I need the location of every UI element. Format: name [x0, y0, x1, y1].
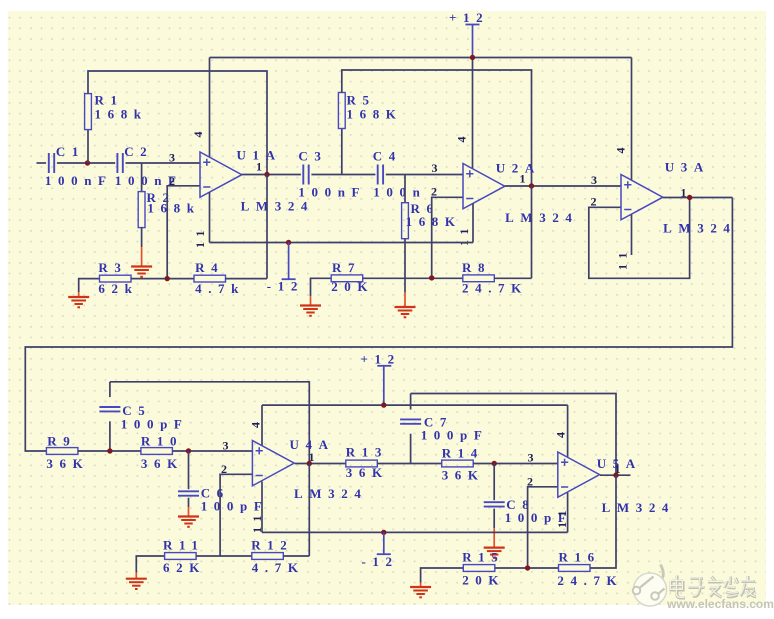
- wire U3A- input: [589, 198, 690, 279]
- wire R15 left to ground: [421, 568, 464, 578]
- junction -12 node top: [286, 240, 291, 245]
- wire U4A out to R13: [295, 463, 346, 465]
- svg-text:168k: 168k: [147, 201, 200, 216]
- junction node U5A-/R16: [525, 565, 530, 570]
- svg-text:100pF: 100pF: [121, 417, 189, 432]
- svg-text:168K: 168K: [406, 214, 462, 229]
- wire C7 bottom stem: [410, 434, 412, 464]
- junction U1A output node: [264, 172, 269, 177]
- power -12 (top): [267, 243, 304, 294]
- junction U3A output node: [687, 195, 692, 200]
- capacitor C7: [400, 415, 488, 443]
- resistor R12: [251, 538, 304, 576]
- svg-text:LM324: LM324: [294, 486, 367, 501]
- svg-text:100nF: 100nF: [298, 185, 366, 200]
- svg-text:R10: R10: [141, 434, 183, 449]
- resistor R3: [98, 260, 138, 296]
- wire R16 to U5A out: [590, 475, 616, 568]
- svg-text:C2: C2: [124, 144, 153, 159]
- resistor R16: [557, 550, 623, 589]
- watermark logo: [633, 565, 667, 607]
- resistor R13: [346, 445, 389, 481]
- wire C7 top stem: [410, 394, 412, 410]
- capacitor C4: [373, 149, 427, 200]
- wire U3A pin11 stub: [631, 215, 633, 256]
- resistor R1: [85, 93, 148, 130]
- wire U4A pin11 drop: [261, 482, 263, 533]
- svg-text:36K: 36K: [141, 456, 184, 471]
- wire C2 to U1A+: [126, 162, 201, 164]
- svg-text:24.7K: 24.7K: [462, 281, 528, 296]
- resistor R8: [462, 260, 528, 296]
- svg-text:LM324: LM324: [505, 210, 578, 225]
- svg-text:24.7K: 24.7K: [557, 573, 623, 588]
- wire U2A pin4 drop: [472, 58, 474, 170]
- resistor R7: [331, 260, 374, 294]
- svg-text:R13: R13: [346, 445, 388, 460]
- svg-text:2: 2: [431, 185, 443, 199]
- svg-text:4: 4: [455, 131, 469, 143]
- wire R11 to R12: [196, 555, 252, 557]
- capacitor C6: [178, 486, 268, 514]
- wire C8 top stem: [493, 464, 495, 501]
- wire R7 to R8: [363, 277, 463, 279]
- wire R3 left to ground: [79, 279, 100, 288]
- op-amp U2A: [463, 164, 505, 209]
- junction node C1/R1: [85, 160, 90, 165]
- svg-text:R5: R5: [347, 93, 376, 108]
- wire R7 left to ground: [311, 278, 332, 287]
- svg-text:36K: 36K: [46, 456, 89, 471]
- wire V+ rail bottom: [262, 404, 568, 406]
- junction U5A output node: [613, 473, 618, 478]
- wire U5A- input: [528, 487, 558, 568]
- resistor R15: [462, 550, 505, 588]
- wire U3A out down-link: [25, 198, 732, 452]
- ground C6 ground: [178, 498, 199, 527]
- wire R9 to R10: [78, 450, 141, 452]
- wire R15 to R16: [495, 567, 559, 569]
- resistor R10: [141, 434, 184, 472]
- svg-text:2: 2: [591, 195, 603, 209]
- svg-text:36K: 36K: [442, 468, 485, 483]
- svg-text:R16: R16: [559, 550, 601, 565]
- junction node R9/C5: [107, 448, 112, 453]
- svg-text:20K: 20K: [462, 573, 505, 588]
- wire C1 to C2: [57, 162, 115, 164]
- power +12 (top): [449, 10, 489, 58]
- junction +12 to rail: [470, 55, 475, 60]
- junction node R14/C8: [492, 461, 497, 466]
- svg-text:R7: R7: [332, 260, 361, 275]
- wire R13 to R14: [377, 463, 441, 465]
- wire V- rail bottom: [262, 531, 568, 533]
- wire C5 top stem: [109, 382, 111, 397]
- wire R4 to fb: [226, 278, 268, 280]
- svg-text:62K: 62K: [163, 560, 206, 575]
- svg-text:R1: R1: [95, 93, 124, 108]
- wire R1 top to fb: [88, 71, 267, 175]
- svg-text:LM324: LM324: [241, 199, 314, 214]
- power -12 (bottom): [362, 532, 399, 569]
- watermark text dianzifashaoyou: [670, 575, 756, 598]
- ground R7 ground: [300, 287, 321, 316]
- svg-text:+12: +12: [361, 352, 401, 367]
- wire C4 to U2A+: [386, 174, 463, 176]
- wire C5 bottom stem: [109, 421, 111, 451]
- svg-text:1: 1: [520, 172, 532, 186]
- wire V+ rail top: [210, 57, 632, 59]
- svg-text:3: 3: [591, 173, 603, 187]
- svg-text:36K: 36K: [346, 465, 389, 480]
- resistor R11: [163, 538, 206, 576]
- svg-text:+12: +12: [449, 10, 489, 25]
- wire U2A fb vertical: [531, 186, 533, 278]
- svg-text:2: 2: [527, 475, 539, 489]
- junction U2A output node: [529, 183, 534, 188]
- svg-text:R4: R4: [195, 260, 224, 275]
- wire R8 to U2A out: [494, 277, 531, 279]
- op-amp U3A: [621, 175, 663, 220]
- wire U2A out to U3A+: [505, 185, 621, 187]
- wire C7 fb horizontal: [411, 394, 616, 476]
- svg-text:C1: C1: [56, 144, 85, 159]
- capacitor C1: [45, 144, 113, 188]
- svg-text:4.7k: 4.7k: [195, 281, 245, 296]
- svg-text:100pF: 100pF: [421, 428, 489, 443]
- wire U2A- input: [432, 197, 463, 278]
- wire R10 to U4A+: [172, 450, 252, 452]
- wire input to C1: [37, 162, 47, 164]
- svg-text:4: 4: [249, 416, 263, 428]
- svg-text:3: 3: [432, 161, 444, 175]
- svg-text:2: 2: [221, 462, 233, 476]
- wire node to R6: [404, 175, 406, 203]
- ground R3 ground: [68, 288, 89, 308]
- wire U1A out to C3: [242, 174, 301, 176]
- wire R12 to fb: [283, 555, 309, 557]
- resistor R9: [46, 434, 89, 472]
- wire U1A pin4 drop: [209, 58, 211, 158]
- wire U4A- input: [220, 474, 252, 556]
- wire U5A pin4 drop: [567, 405, 569, 457]
- svg-text:LM324: LM324: [602, 500, 675, 515]
- op-amp U1A: [200, 152, 242, 197]
- wire U5A pin11 drop: [567, 493, 569, 533]
- svg-text:R15: R15: [462, 550, 504, 565]
- svg-text:62k: 62k: [98, 281, 138, 296]
- svg-text:4: 4: [554, 426, 568, 438]
- wire C5 fb horizontal: [110, 382, 309, 464]
- svg-text:3: 3: [223, 439, 235, 453]
- svg-text:R11: R11: [163, 538, 204, 553]
- wire U1A- input: [167, 186, 200, 279]
- svg-text:4: 4: [614, 142, 628, 154]
- op-amp U5A: [558, 452, 600, 497]
- svg-text:C4: C4: [373, 149, 402, 164]
- ground R2 ground: [131, 228, 152, 277]
- wire U5A out: [600, 474, 631, 476]
- svg-text:4.7K: 4.7K: [252, 560, 305, 575]
- svg-text:U2A: U2A: [496, 161, 541, 176]
- capacitor C2: [115, 144, 183, 188]
- junction -12 node bottom: [381, 530, 386, 535]
- resistor R4: [194, 260, 245, 296]
- wire C6 top stem: [188, 451, 190, 489]
- wire R6 to ground cross: [404, 239, 406, 279]
- wire C3 to C4: [311, 174, 375, 176]
- svg-text:R9: R9: [47, 434, 76, 449]
- ground R15 ground: [410, 578, 431, 597]
- ground R11 ground: [126, 566, 147, 589]
- op-amp U4A: [252, 441, 294, 486]
- svg-text:R8: R8: [462, 260, 491, 275]
- resistor R2: [138, 190, 200, 228]
- svg-text:168k: 168k: [95, 107, 148, 122]
- capacitor C3: [298, 149, 366, 200]
- svg-text:20K: 20K: [331, 279, 374, 294]
- resistor R6: [402, 201, 462, 239]
- svg-text:R3: R3: [98, 260, 127, 275]
- capacitor C5: [99, 403, 188, 432]
- svg-text:R12: R12: [251, 538, 293, 553]
- svg-text:1: 1: [256, 160, 268, 174]
- svg-text:C3: C3: [298, 149, 327, 164]
- wire R3 to R4: [131, 278, 194, 280]
- svg-text:3: 3: [528, 451, 540, 465]
- wire node to R5: [341, 129, 343, 175]
- svg-text:100nF: 100nF: [45, 173, 113, 188]
- wire V- rail top: [210, 242, 474, 244]
- svg-text:-12: -12: [362, 554, 399, 569]
- svg-text:11: 11: [616, 247, 630, 270]
- wire R5 top to U2A out: [342, 70, 532, 186]
- junction +12 to rail bottom: [381, 402, 386, 407]
- wire U3A out: [663, 197, 733, 199]
- wire U4A fb vertical: [308, 464, 310, 557]
- svg-text:11: 11: [193, 225, 207, 248]
- svg-text:LM324: LM324: [663, 221, 736, 236]
- wire U1A fb vertical: [266, 175, 268, 279]
- svg-text:3: 3: [169, 151, 181, 165]
- svg-text:R14: R14: [442, 446, 484, 461]
- capacitor C8: [484, 497, 573, 525]
- wire U2A pin11 drop: [472, 203, 474, 242]
- ground C8 ground: [484, 509, 505, 558]
- resistor R5: [338, 93, 402, 129]
- junction U4A output node: [307, 461, 312, 466]
- junction node R10/C6: [186, 448, 191, 453]
- wire U3A pin4 drop: [631, 58, 633, 181]
- wire U1A pin11 drop: [209, 192, 211, 243]
- svg-text:4: 4: [191, 126, 205, 138]
- wire C2 node to R2: [141, 163, 143, 192]
- wire node to R1: [87, 130, 89, 163]
- junction node U2A-/R8: [429, 275, 434, 280]
- svg-text:www.elecfans.com: www.elecfans.com: [666, 597, 774, 611]
- svg-text:168K: 168K: [347, 107, 403, 122]
- wire U4A pin4 drop: [261, 405, 263, 446]
- resistor R14: [442, 446, 485, 483]
- svg-text:100n: 100n: [373, 185, 426, 200]
- wire R11 left to ground: [136, 556, 164, 566]
- power +12 (bottom): [361, 352, 401, 406]
- junction node R3/R4: [165, 276, 170, 281]
- svg-text:2: 2: [169, 174, 181, 188]
- wire R14 to U5A+: [473, 463, 558, 465]
- ground R6 ground: [395, 278, 416, 317]
- svg-text:-12: -12: [267, 279, 304, 294]
- svg-text:U3A: U3A: [665, 160, 710, 175]
